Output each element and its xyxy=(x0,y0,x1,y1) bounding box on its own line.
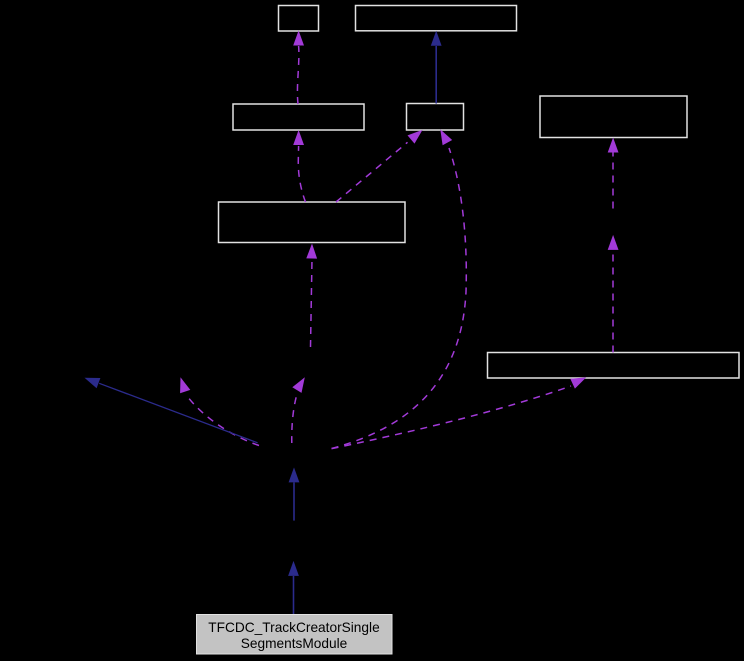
edge I1 to box5 (dashed usage arrow, right column upper) xyxy=(608,138,619,209)
edge A2 to box1 (dashed usage arrow) xyxy=(293,31,304,105)
node box1 (top-left small class box) xyxy=(279,6,319,32)
edge hub to I4 (short dashed usage arrow upward) xyxy=(292,377,305,443)
node box6 (right wide class box) xyxy=(488,353,740,379)
edge box3 to B2 (dashed usage arrow, diagonal) xyxy=(336,130,423,202)
node box2 (top wide class box) xyxy=(356,6,517,31)
svg-text:SegmentsModule: SegmentsModule xyxy=(241,636,348,651)
node boxB2 (second row middle class box) xyxy=(407,104,464,131)
edge hub to box6 (long dashed usage arrow to the right) xyxy=(332,377,587,448)
node boxA2 (second row left class box) xyxy=(233,104,364,130)
edge I5 to hub (short solid inheritance arrow) xyxy=(289,467,300,520)
node box3 (third row large two-line class box) xyxy=(219,202,406,243)
edge box6 to I1 (dashed usage arrow, right column lower) xyxy=(608,235,619,353)
edge hub to B2 (long dashed usage arrow, right bow) xyxy=(332,129,467,448)
node box5 (second row right two-line class box) xyxy=(540,96,687,138)
edge hub to I3 (dashed usage arrow to upper-left) xyxy=(180,377,259,445)
edge grayNode to I5 (short solid inheritance arrow) xyxy=(288,561,299,615)
edge B2 to box2 (solid inheritance arrow) xyxy=(431,31,442,104)
node grayNode TFCDC_TrackCreatorSingleSegmentsModule (current class, gray filled) xyxy=(197,615,393,655)
svg-text:TFCDC_TrackCreatorSingle: TFCDC_TrackCreatorSingle xyxy=(208,620,379,635)
edge box3 to A2 (dashed usage arrow) xyxy=(293,130,305,202)
edge I4 to box3 (dashed usage arrow, center column) xyxy=(306,244,317,348)
edge hub to I2 (solid inheritance arrow to upper-left) xyxy=(85,378,258,443)
